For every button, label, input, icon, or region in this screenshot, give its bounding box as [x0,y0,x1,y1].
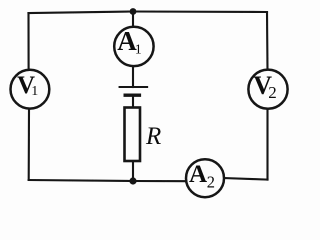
svg-text:2: 2 [207,173,215,192]
svg-text:2: 2 [268,83,277,102]
svg-text:1: 1 [135,43,142,58]
svg-text:1: 1 [31,84,38,99]
svg-text:A: A [189,161,207,188]
svg-text:R: R [145,123,161,150]
